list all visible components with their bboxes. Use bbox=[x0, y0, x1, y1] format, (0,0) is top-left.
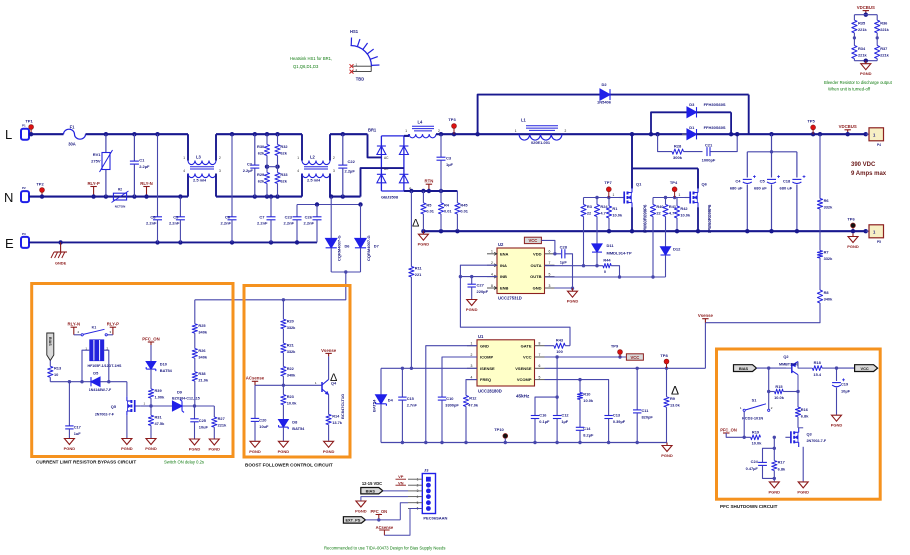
svg-text:9 Amps max: 9 Amps max bbox=[851, 171, 887, 177]
diode D7 CQRM4007-G bbox=[360, 205, 362, 239]
power tag BIAS vertical bbox=[47, 333, 54, 361]
svg-text:680 uF: 680 uF bbox=[730, 186, 743, 191]
svg-text:820pF: 820pF bbox=[642, 415, 654, 420]
resistor R20 332k bbox=[282, 300, 284, 319]
svg-text:Heatsink HS1 for BR1,: Heatsink HS1 for BR1, bbox=[290, 56, 332, 61]
transistor Q2 MMBT3906 bbox=[791, 363, 793, 373]
svg-text:D6: D6 bbox=[345, 244, 351, 249]
svg-text:Q1: Q1 bbox=[636, 181, 642, 186]
svg-text:GNDE: GNDE bbox=[55, 261, 67, 266]
svg-text:L1: L1 bbox=[521, 118, 527, 123]
diode D4 BAT54 clamp bbox=[380, 368, 382, 395]
svg-text:BAT54: BAT54 bbox=[292, 426, 305, 431]
svg-text:VP: VP bbox=[398, 474, 404, 479]
svg-text:VDD: VDD bbox=[533, 251, 542, 256]
svg-text:C9: C9 bbox=[173, 215, 179, 220]
svg-text:PGND: PGND bbox=[847, 244, 859, 249]
svg-text:1N4148W-7-F: 1N4148W-7-F bbox=[89, 388, 112, 392]
svg-text:VCC: VCC bbox=[523, 355, 532, 360]
test point TP2 bbox=[41, 192, 43, 197]
resistor R44 0 bbox=[603, 264, 611, 268]
svg-text:1uF: 1uF bbox=[74, 431, 82, 436]
svg-text:4: 4 bbox=[297, 169, 299, 173]
resistor R32 62k bbox=[275, 132, 279, 136]
svg-text:PFC_ON: PFC_ON bbox=[142, 336, 159, 341]
svg-text:E: E bbox=[5, 236, 14, 251]
svg-text:RLY-P: RLY-P bbox=[87, 181, 99, 186]
svg-text:C7: C7 bbox=[259, 215, 265, 220]
svg-text:RV1: RV1 bbox=[93, 152, 101, 157]
svg-text:R14: R14 bbox=[332, 414, 340, 419]
svg-text:PFC_ON: PFC_ON bbox=[370, 509, 387, 514]
svg-text:8.2µF: 8.2µF bbox=[583, 433, 594, 438]
wire J3 pin4 to PGND bbox=[361, 497, 408, 501]
svg-text:TP4: TP4 bbox=[670, 180, 678, 185]
varistor RV1 275V bbox=[104, 132, 108, 136]
svg-text:ACsense: ACsense bbox=[246, 376, 265, 381]
resistor R15 10.0k base bbox=[768, 368, 770, 391]
wire AC1 from L rail to bridge bbox=[368, 134, 382, 157]
resistor R33 62k bbox=[275, 194, 279, 198]
svg-text:UCC28180D: UCC28180D bbox=[478, 388, 502, 393]
svg-text:8: 8 bbox=[539, 342, 541, 346]
svg-text:13.7k: 13.7k bbox=[332, 420, 343, 425]
transistor Q1 IPW60R099P6 bbox=[619, 197, 625, 199]
capacitor C14 8.2uF VCOMP bbox=[579, 400, 581, 428]
svg-text:C11: C11 bbox=[642, 408, 650, 413]
wire ISENSE rail bbox=[381, 367, 477, 369]
wire power ground rail bbox=[423, 230, 865, 232]
svg-text:D10: D10 bbox=[160, 362, 167, 367]
svg-text:3: 3 bbox=[471, 364, 473, 368]
svg-text:4: 4 bbox=[183, 169, 185, 173]
svg-text:TP9: TP9 bbox=[611, 344, 619, 349]
svg-text:Recommended to use TIDA-00473: Recommended to use TIDA-00473 Design for… bbox=[324, 546, 445, 551]
capacitor C1 2.2uF bbox=[132, 132, 136, 136]
svg-text:GND: GND bbox=[533, 286, 542, 291]
resistor R11 221 to ISENSE bbox=[409, 189, 413, 193]
svg-text:J3: J3 bbox=[424, 468, 429, 473]
svg-text:47.5k: 47.5k bbox=[155, 421, 166, 426]
wire feed into boost follower bbox=[282, 298, 285, 301]
ground PGND at C27 bbox=[471, 298, 473, 301]
wire analog ground rail bbox=[381, 442, 667, 444]
svg-text:L4: L4 bbox=[418, 120, 424, 125]
svg-text:C17: C17 bbox=[74, 425, 81, 430]
svg-text:TP2: TP2 bbox=[36, 182, 44, 187]
svg-text:TP7: TP7 bbox=[604, 180, 612, 185]
svg-text:C21: C21 bbox=[705, 143, 713, 148]
svg-text:P4: P4 bbox=[877, 143, 881, 147]
svg-text:P1: P1 bbox=[22, 124, 26, 128]
svg-text:0.01: 0.01 bbox=[460, 209, 468, 214]
svg-text:GND: GND bbox=[480, 343, 489, 348]
ground PGND at R31 bbox=[150, 437, 152, 440]
capacitor C27 220pF bbox=[470, 275, 473, 278]
capacitor C9 2.2nF N to E bbox=[178, 194, 182, 198]
power tag EXT_PS bbox=[343, 517, 365, 523]
svg-text:R2: R2 bbox=[118, 188, 122, 192]
capacitor C12 1uF VCC bbox=[556, 357, 558, 415]
svg-text:RLY-N: RLY-N bbox=[140, 181, 153, 186]
wire VCOMP rail bbox=[545, 380, 609, 416]
resistor R22 340k bbox=[282, 353, 284, 367]
capacitor C5 680uF bbox=[771, 152, 773, 178]
test point TP3 bbox=[452, 132, 456, 136]
svg-text:C4: C4 bbox=[735, 179, 741, 184]
svg-text:EXT_PS: EXT_PS bbox=[345, 518, 360, 523]
capacitor C19 10uF bbox=[836, 368, 838, 381]
capacitor C2 2.2uF X-cap bbox=[253, 132, 257, 136]
ground GNDE earth symbol bbox=[58, 240, 62, 244]
svg-text:1: 1 bbox=[491, 250, 493, 254]
svg-text:2.7nF: 2.7nF bbox=[407, 403, 418, 408]
wire N rail to bridge bbox=[330, 196, 361, 198]
ground PGND at D8 bbox=[282, 440, 284, 443]
resistor R16 6.8k collector bbox=[797, 392, 799, 408]
svg-text:2: 2 bbox=[565, 129, 567, 133]
resistor R42 10.0k gate pulldown bbox=[676, 198, 678, 207]
svg-text:U1: U1 bbox=[478, 334, 484, 339]
svg-text:30A: 30A bbox=[68, 142, 76, 147]
wire L rail after fuse bbox=[86, 133, 189, 135]
svg-text:R11: R11 bbox=[415, 266, 423, 271]
svg-text:R33: R33 bbox=[280, 172, 288, 177]
svg-text:BR1: BR1 bbox=[368, 128, 377, 133]
svg-text:BIAS: BIAS bbox=[48, 337, 52, 346]
group box boost follower control circuit bbox=[244, 286, 350, 458]
svg-text:R19: R19 bbox=[752, 430, 760, 435]
svg-text:1µF: 1µF bbox=[560, 260, 568, 265]
svg-text:100: 100 bbox=[556, 349, 563, 354]
svg-text:ICOMP: ICOMP bbox=[480, 355, 493, 360]
diode D3 FFH30S60S parallel bbox=[651, 112, 731, 134]
wire output cap bus bbox=[769, 132, 773, 136]
svg-text:R29: R29 bbox=[257, 172, 265, 177]
svg-text:C6: C6 bbox=[225, 215, 231, 220]
svg-text:R8: R8 bbox=[824, 290, 830, 295]
svg-text:C16: C16 bbox=[539, 413, 547, 418]
svg-text:5: 5 bbox=[549, 272, 551, 276]
svg-text:3300pF: 3300pF bbox=[445, 403, 459, 408]
svg-text:62k: 62k bbox=[280, 151, 287, 156]
resistor R12 47.0k FREQ bbox=[466, 380, 477, 396]
wire EXT_PS to J3 pin5 bbox=[365, 519, 400, 521]
svg-text:R16: R16 bbox=[801, 407, 809, 412]
power tag BIAS pfc shutdown bbox=[734, 365, 757, 372]
svg-text:CURRENT LIMIT RESISTOR BYPASS: CURRENT LIMIT RESISTOR BYPASS CIRCUIT bbox=[36, 460, 136, 465]
resistor R41 4.7 gate off bbox=[665, 198, 667, 205]
wire D6 D7 cathode join to PFC_OK net bbox=[331, 271, 360, 273]
power tag BIAS at J3 bbox=[361, 488, 383, 494]
svg-text:340k: 340k bbox=[824, 297, 833, 302]
svg-text:45kHz: 45kHz bbox=[516, 394, 530, 399]
svg-text:1.00k: 1.00k bbox=[155, 394, 166, 399]
ground PGND at C25 bbox=[194, 438, 196, 441]
svg-text:PGND: PGND bbox=[189, 447, 201, 452]
svg-text:2.2nF: 2.2nF bbox=[304, 221, 315, 226]
wire main rail after L4 bbox=[436, 133, 691, 135]
svg-text:3: 3 bbox=[219, 169, 221, 173]
svg-text:HF105F-1/12DT-1HS: HF105F-1/12DT-1HS bbox=[88, 364, 123, 368]
svg-text:2.2nF: 2.2nF bbox=[146, 221, 157, 226]
resistor R1 10.0k gate pulldown bbox=[608, 198, 610, 207]
svg-text:BC847CLT1G: BC847CLT1G bbox=[340, 394, 345, 419]
svg-text:340k: 340k bbox=[287, 372, 296, 377]
svg-text:D7: D7 bbox=[374, 244, 379, 249]
svg-text:1000pF: 1000pF bbox=[702, 158, 716, 163]
svg-text:Δ: Δ bbox=[330, 372, 338, 384]
svg-text:7: 7 bbox=[539, 353, 541, 357]
svg-text:10.0k: 10.0k bbox=[680, 213, 691, 218]
capacitor C10 3300pF ICOMP bbox=[442, 357, 477, 397]
diode D11 MMDL914-TP bbox=[592, 244, 602, 252]
svg-text:VCC: VCC bbox=[860, 366, 868, 371]
wire L rail mid section bbox=[216, 133, 302, 135]
transistor Q6 IPW60R099P6 bbox=[685, 197, 691, 199]
svg-text:TP1: TP1 bbox=[25, 119, 33, 124]
svg-text:R13: R13 bbox=[54, 366, 62, 371]
capacitor C21 1000pF snubber bbox=[706, 147, 708, 156]
power tag VCC pfc shutdown bbox=[837, 367, 855, 369]
svg-text:PGND: PGND bbox=[418, 242, 430, 247]
svg-text:1µF: 1µF bbox=[561, 419, 568, 424]
svg-text:R3: R3 bbox=[587, 204, 593, 209]
connector P5 output return bbox=[864, 229, 868, 233]
wire L rail to fuse bbox=[36, 133, 64, 135]
wire bypass node row bbox=[50, 381, 127, 383]
svg-text:PGND: PGND bbox=[278, 449, 290, 454]
resistor R9 13.0k divider low side bbox=[666, 368, 668, 397]
svg-text:2.5 mH: 2.5 mH bbox=[193, 178, 206, 183]
svg-text:When unit is turned-off: When unit is turned-off bbox=[828, 87, 871, 92]
svg-text:Vsense: Vsense bbox=[321, 348, 337, 353]
power tag VCC at U2 VDD bbox=[524, 237, 541, 243]
svg-text:Bleeder Resistor to discharge: Bleeder Resistor to discharge output bbox=[824, 80, 893, 85]
capacitor C23 2.2nF to earth bbox=[297, 204, 361, 206]
ground PGND at output return bbox=[852, 234, 854, 237]
diode D8 BAT54 bbox=[282, 405, 284, 420]
capacitor C13 0.39uF VCOMP bbox=[604, 415, 612, 417]
svg-text:4: 4 bbox=[491, 272, 493, 276]
ground PGND at C20 bbox=[254, 440, 256, 443]
svg-text:5: 5 bbox=[539, 375, 541, 379]
resistor R31 47.5k bbox=[150, 406, 152, 415]
resistor R17 6.8k bbox=[773, 448, 775, 460]
svg-text:340k: 340k bbox=[198, 354, 207, 359]
svg-text:R17: R17 bbox=[778, 460, 785, 465]
svg-text:ENB: ENB bbox=[500, 286, 509, 291]
test point TP7 and gate bus Q1 bbox=[584, 197, 621, 199]
resistor R43 100 gate drive bbox=[545, 345, 554, 347]
resistor R26 340k bbox=[194, 333, 196, 348]
svg-text:FFH30S60S: FFH30S60S bbox=[704, 125, 726, 130]
svg-text:0.01: 0.01 bbox=[426, 209, 434, 214]
svg-text:PGND: PGND bbox=[466, 307, 478, 312]
svg-text:332k: 332k bbox=[824, 205, 833, 210]
svg-text:Δ: Δ bbox=[412, 218, 420, 230]
svg-text:2.2nF: 2.2nF bbox=[221, 221, 232, 226]
svg-text:62k: 62k bbox=[258, 151, 265, 156]
svg-text:C5: C5 bbox=[760, 179, 766, 184]
svg-text:ENA: ENA bbox=[500, 251, 509, 256]
svg-text:13.0k: 13.0k bbox=[670, 403, 681, 408]
svg-text:PGND: PGND bbox=[355, 509, 367, 514]
svg-text:BAT54: BAT54 bbox=[372, 399, 377, 412]
resistor R28 300k snubber bbox=[658, 134, 672, 151]
svg-text:HS1: HS1 bbox=[350, 29, 359, 34]
svg-text:221k: 221k bbox=[218, 423, 227, 428]
svg-text:R27: R27 bbox=[218, 416, 225, 421]
svg-text:0.47µF: 0.47µF bbox=[746, 466, 759, 471]
ground PGND at C19 bbox=[836, 414, 838, 417]
wire Q5 gate row bbox=[140, 405, 151, 407]
svg-text:2: 2 bbox=[471, 353, 473, 357]
connector P4 output positive bbox=[864, 132, 868, 136]
svg-text:10.0k: 10.0k bbox=[752, 441, 763, 446]
resistor R23 10.0k bbox=[282, 385, 284, 394]
group box current limit resistor bypass circuit bbox=[32, 284, 233, 457]
resistor R14 13.7k emitter bbox=[328, 395, 330, 415]
wire U1 GND pin to ground rail bbox=[426, 346, 477, 443]
svg-text:R32: R32 bbox=[280, 144, 288, 149]
capacitor C11 820pF VSENSE bbox=[636, 367, 639, 370]
svg-text:PGND: PGND bbox=[121, 446, 133, 451]
wire OUTA to gate resistors bbox=[545, 265, 603, 267]
svg-text:332k: 332k bbox=[287, 349, 296, 354]
svg-text:C1: C1 bbox=[139, 158, 145, 163]
resistor R13 10 bbox=[49, 361, 51, 367]
svg-text:10.0k: 10.0k bbox=[774, 395, 785, 400]
svg-text:C28: C28 bbox=[560, 245, 568, 250]
wire bleeder network bbox=[854, 14, 877, 16]
capacitor C26 2.2nF to earth bbox=[315, 202, 319, 206]
svg-text:D4: D4 bbox=[388, 398, 394, 403]
ic U1 UCC28180D PFC controller bbox=[477, 340, 535, 386]
svg-text:D12: D12 bbox=[673, 247, 681, 252]
svg-text:R20: R20 bbox=[287, 319, 294, 324]
resistor R19 10.0k gate bbox=[751, 435, 761, 440]
test point TP6 bbox=[852, 227, 854, 231]
svg-text:C12: C12 bbox=[561, 413, 569, 418]
svg-text:221k: 221k bbox=[858, 52, 867, 57]
svg-text:2N7002-7-F: 2N7002-7-F bbox=[807, 439, 827, 443]
svg-text:INA: INA bbox=[500, 263, 507, 268]
svg-text:C2: C2 bbox=[247, 162, 253, 167]
svg-text:R28: R28 bbox=[674, 143, 682, 148]
svg-text:221: 221 bbox=[415, 272, 422, 277]
svg-text:RLY-P: RLY-P bbox=[107, 322, 119, 327]
wire VSENSE rail bbox=[545, 367, 706, 369]
svg-text:10uF: 10uF bbox=[199, 425, 209, 430]
svg-text:C19: C19 bbox=[841, 382, 849, 387]
svg-text:12-15 VDC: 12-15 VDC bbox=[362, 481, 382, 486]
svg-text:1µF: 1µF bbox=[446, 162, 454, 167]
svg-text:C24: C24 bbox=[751, 459, 759, 464]
svg-text:62k: 62k bbox=[258, 179, 265, 184]
capacitor C7 2.2nF N to E bbox=[269, 194, 273, 198]
wire Vsense down to VSENSE pin bbox=[704, 323, 706, 369]
svg-text:MMDL914-TP: MMDL914-TP bbox=[607, 251, 632, 256]
diode D12 MMDL914-TP bbox=[661, 247, 671, 255]
svg-text:6: 6 bbox=[539, 364, 541, 368]
svg-text:4.7: 4.7 bbox=[669, 211, 674, 216]
svg-text:340k: 340k bbox=[198, 330, 207, 335]
svg-text:Q3: Q3 bbox=[807, 432, 813, 437]
svg-text:VN: VN bbox=[398, 480, 404, 485]
svg-text:680 uF: 680 uF bbox=[780, 186, 793, 191]
svg-text:3: 3 bbox=[549, 284, 551, 288]
svg-text:PFC SHUTDOWN CIRCUIT: PFC SHUTDOWN CIRCUIT bbox=[720, 504, 778, 509]
ground PGND at R17 bbox=[773, 480, 775, 483]
svg-text:ISENSE: ISENSE bbox=[480, 366, 495, 371]
svg-text:0.01: 0.01 bbox=[444, 209, 452, 214]
svg-text:2.2µF: 2.2µF bbox=[139, 164, 150, 169]
svg-text:PGND: PGND bbox=[64, 446, 76, 451]
svg-text:INB: INB bbox=[500, 274, 507, 279]
svg-text:2: 2 bbox=[438, 129, 440, 133]
resistor R3 22 gate bbox=[583, 198, 585, 205]
test point TP8 bbox=[665, 367, 668, 370]
ground PGND at J3 bbox=[360, 500, 362, 503]
svg-text:VCC: VCC bbox=[528, 238, 537, 243]
capacitor C18 680uF bbox=[796, 152, 798, 178]
ground PGND at R14 bbox=[328, 440, 330, 443]
common-mode choke L2 2.5mH bbox=[301, 134, 303, 160]
svg-text:Q1,Q6,D1,D3: Q1,Q6,D1,D3 bbox=[293, 64, 319, 69]
svg-text:C15: C15 bbox=[407, 396, 415, 401]
svg-text:R18: R18 bbox=[814, 360, 822, 365]
svg-text:S1: S1 bbox=[752, 398, 758, 403]
svg-text:VDCBUS: VDCBUS bbox=[857, 5, 875, 10]
svg-text:0: 0 bbox=[604, 269, 606, 274]
svg-text:6.8k: 6.8k bbox=[778, 467, 786, 472]
svg-text:1: 1 bbox=[405, 129, 407, 133]
svg-text:R6: R6 bbox=[824, 198, 830, 203]
diode D5 1N4148W-7-F bbox=[91, 377, 100, 386]
svg-text:R12: R12 bbox=[469, 396, 477, 401]
resistor R38 21.0k bbox=[194, 358, 196, 372]
svg-text:D11: D11 bbox=[607, 243, 615, 248]
svg-text:IPW60R099P6: IPW60R099P6 bbox=[643, 204, 648, 233]
wire gate node row bbox=[151, 405, 214, 407]
wire R30-R29 midpoint tie bbox=[267, 166, 278, 168]
svg-text:PGND: PGND bbox=[661, 453, 673, 458]
svg-text:TP5: TP5 bbox=[807, 119, 815, 124]
wire N rail mid section bbox=[216, 196, 302, 198]
wire ACsense to J3 pin6 bbox=[384, 509, 422, 536]
svg-text:020E1-001: 020E1-001 bbox=[531, 140, 551, 145]
svg-text:R26: R26 bbox=[198, 348, 206, 353]
resistor R36 221k bbox=[875, 20, 880, 33]
svg-text:2.2µF: 2.2µF bbox=[243, 168, 254, 173]
svg-text:C27: C27 bbox=[477, 283, 485, 288]
svg-text:D1: D1 bbox=[689, 125, 695, 130]
svg-text:RLY-N: RLY-N bbox=[68, 322, 81, 327]
svg-text:2: 2 bbox=[219, 156, 221, 160]
svg-text:P5: P5 bbox=[877, 240, 881, 244]
test point TP9 bbox=[618, 355, 621, 358]
svg-text:0.1µF: 0.1µF bbox=[539, 419, 550, 424]
svg-text:KCD3-101N: KCD3-101N bbox=[742, 416, 763, 421]
svg-text:Q2: Q2 bbox=[783, 354, 789, 359]
svg-text:332k: 332k bbox=[824, 256, 833, 261]
svg-text:R42: R42 bbox=[680, 206, 688, 211]
svg-text:221k: 221k bbox=[858, 27, 867, 32]
capacitor C22 2.2uF X-cap bbox=[341, 132, 345, 136]
svg-text:8: 8 bbox=[491, 284, 493, 288]
svg-text:CQRM4007-G: CQRM4007-G bbox=[366, 235, 371, 261]
